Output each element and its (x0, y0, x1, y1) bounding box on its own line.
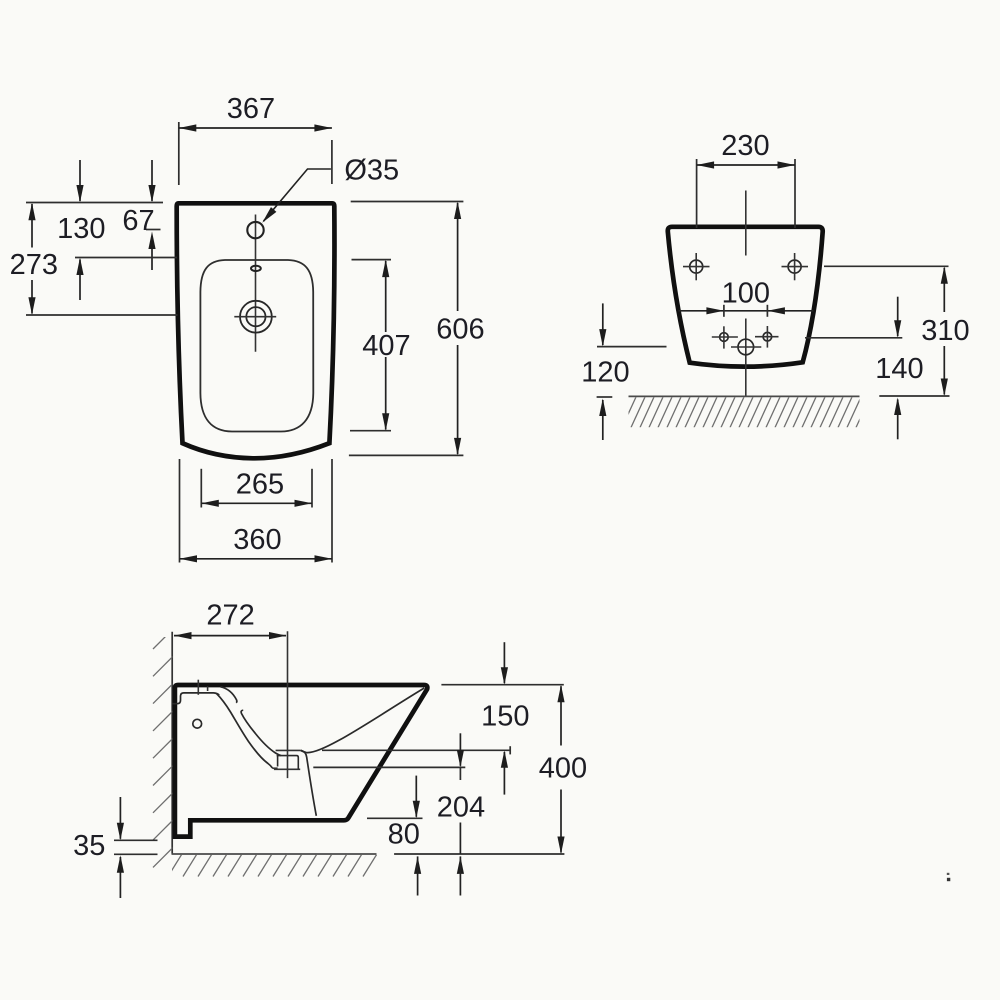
side view: floor hatching (168, 855, 377, 877)
plan view: bidet body outline (177, 203, 335, 458)
dim 400 overall height (539, 685, 587, 854)
side view: waste pipe edge (301, 750, 317, 816)
plan view: inner bowl (200, 260, 313, 432)
side view: drain box second line (277, 756, 299, 769)
dim 80 (388, 776, 422, 896)
svg-text:150: 150 (481, 701, 529, 733)
side view: drain box left step (272, 767, 277, 769)
dim 367 top width (179, 93, 332, 185)
dim 130 (top edge to bowl top) (57, 160, 105, 300)
side view: drain box bottom (274, 768, 300, 770)
dim 204 (437, 733, 485, 895)
svg-text:230: 230 (721, 130, 769, 162)
side view: wall line (171, 632, 173, 854)
side view: mounting tick 1 (197, 680, 199, 695)
side view: bidet body outline (175, 685, 427, 837)
svg-text:100: 100 (722, 278, 770, 310)
dim 230 fixing holes spacing (697, 130, 795, 228)
svg-text:273: 273 (10, 249, 58, 281)
side view: bowl front sweep curve (301, 688, 425, 753)
leader Ø35 faucet hole (259, 155, 399, 225)
side view: bowl rim curve (lower part after break) (241, 710, 281, 755)
rear view: bidet body outline (668, 227, 823, 367)
side view: ground extension line (dims) (394, 853, 564, 855)
extension line at drain center (273) (26, 314, 178, 316)
svg-text:130: 130 (57, 213, 105, 245)
svg-text:80: 80 (388, 819, 420, 851)
stray speck bottom right (947, 873, 950, 875)
side view: fixing hole (side) (193, 719, 202, 728)
dim 273 (top edge to drain center) (10, 203, 58, 315)
rear view: right fixing hole (782, 253, 809, 280)
rear view: lower centerline to ground (745, 319, 747, 397)
extension line L2 (204 upper) (313, 766, 465, 768)
svg-text:606: 606 (436, 313, 484, 345)
side view: mounting tick 2 (207, 686, 209, 691)
svg-text:67: 67 (122, 205, 154, 237)
dim 140 supply holes above floor (805, 297, 924, 440)
svg-text:140: 140 (875, 353, 923, 385)
extension line body bottom (80) (367, 817, 423, 819)
svg-text:204: 204 (437, 791, 485, 823)
plan view: drain outer circle (240, 301, 272, 333)
dim 120 drain height above floor (581, 303, 666, 440)
dim 35 skirt height (73, 797, 157, 898)
dim 67 (top edge to faucet hole) (122, 160, 160, 270)
rear view: ground line (629, 395, 860, 397)
dim 100 supply holes spacing (679, 278, 814, 317)
dim 150 top to overflow line (441, 642, 563, 794)
side view: back shelf profile (173, 693, 220, 704)
rear view: left supply hole (712, 326, 738, 348)
side view: bowl back wall curve (217, 694, 273, 768)
extension line at body top (left) (26, 202, 163, 204)
side view: bowl rim arc (upper, broken) (221, 687, 237, 703)
dim 272 wall to drain (174, 600, 287, 640)
svg-text:120: 120 (581, 357, 629, 389)
dim 606 overall height (349, 202, 485, 456)
rear view: top centerline (745, 191, 747, 256)
side view: drain box left side (277, 756, 279, 767)
plan view: faucet hole (247, 222, 263, 238)
svg-text:272: 272 (206, 600, 254, 632)
extension line L1 (150 lower) (322, 749, 510, 751)
tick at L1 right end (509, 746, 511, 754)
dim 407 bowl height (350, 260, 411, 431)
extension line at bowl top (130) (75, 257, 177, 259)
plan view: drain horizontal centerline (234, 316, 276, 318)
rear view: left fixing hole (683, 253, 710, 280)
svg-text:310: 310 (921, 315, 969, 347)
dim 310 fixing holes above floor (824, 266, 970, 396)
plan view: drain inner circle (246, 307, 265, 326)
svg-text:367: 367 (227, 93, 275, 125)
dim 360 bottom width (180, 459, 333, 563)
rear view: drain hole (731, 339, 761, 355)
rear view: right supply hole (755, 326, 779, 348)
side view: ground line (172, 853, 377, 855)
side view: drain box top line (276, 749, 301, 751)
dim 265 bowl width (201, 468, 312, 507)
svg-text:Ø35: Ø35 (344, 155, 399, 187)
side view: drain centerline / 272 extension (287, 631, 289, 778)
svg-text:407: 407 (362, 330, 410, 362)
svg-text:265: 265 (236, 468, 284, 500)
rear view: floor hatching (622, 397, 879, 428)
side view: wall hatching (153, 629, 174, 868)
plan view: vertical centerline (255, 215, 257, 352)
svg-text:360: 360 (233, 524, 281, 556)
svg-text:400: 400 (539, 753, 587, 785)
svg-text:35: 35 (73, 830, 105, 862)
plan view: overflow hole (251, 266, 261, 271)
